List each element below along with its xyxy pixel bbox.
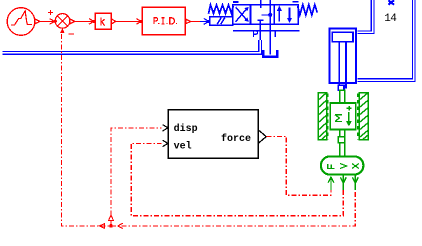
- valve body: [233, 5, 298, 25]
- valve V1 proportional solenoid: [210, 17, 233, 26]
- tank T1: [263, 50, 277, 57]
- cylinder C1: [329, 29, 356, 88]
- velocity wire: [131, 143, 343, 215]
- output port: [70, 19, 75, 24]
- block output port: [258, 130, 266, 144]
- connector square: [338, 137, 345, 143]
- mass plus sign: [347, 106, 352, 111]
- pill port X (displacement out, arrow down): [352, 175, 358, 190]
- node X marker: [389, 0, 394, 4]
- feedback + displacement wire: [62, 34, 356, 226]
- valve centre cell blocked ports: [258, 5, 273, 25]
- mass block M: [330, 103, 356, 129]
- pill port F (force in, arrow up): [328, 177, 334, 190]
- valve underline: [233, 30, 300, 32]
- minus sign: [69, 33, 74, 35]
- PID controller: [142, 7, 190, 35]
- wire summer to gain k: [75, 19, 96, 25]
- svg-text:vel: vel: [174, 140, 192, 152]
- summing junction: [48, 10, 75, 34]
- valve left top bar: [233, 1, 239, 3]
- valve left cell crossed arrows: [236, 7, 249, 22]
- pill port V (velocity out, arrow down): [340, 175, 346, 190]
- block input arrows: [163, 125, 168, 147]
- arrow up on disp branch: [109, 215, 114, 220]
- label T: [273, 31, 278, 37]
- right wall: [359, 93, 368, 140]
- disp branch wire: [111, 128, 162, 226]
- arrow left barbs: [118, 223, 123, 228]
- svg-text:disp: disp: [174, 123, 198, 135]
- arrow up into summer: [60, 28, 65, 33]
- force wire: [266, 137, 331, 196]
- wire k to PID: [116, 19, 143, 25]
- svg-text:force: force: [221, 133, 251, 145]
- function block disp/vel to force: [168, 110, 258, 158]
- pill upper stem: [340, 143, 345, 157]
- valve right cell arrows: [277, 6, 292, 24]
- sensor pill FVX: [321, 156, 364, 174]
- valve right top bar: [292, 1, 298, 3]
- junction dot: [109, 224, 113, 228]
- pipe valve top ports: [261, 0, 271, 5]
- svg-text:14: 14: [384, 13, 397, 25]
- wire PID to valve: [191, 20, 200, 22]
- plus sign: [48, 10, 53, 15]
- wall contact dashed lines: [328, 94, 358, 140]
- mass upper stem: [340, 90, 345, 103]
- pipe A to cylinder head: [358, 0, 374, 34]
- mass lower stem: [340, 129, 345, 136]
- valve left spring: [209, 5, 234, 14]
- label P: [254, 31, 258, 37]
- pipe T to tank: [269, 24, 271, 54]
- arrow left on feedback: [100, 224, 105, 229]
- wire source to summer: [40, 19, 55, 25]
- pipe B to cylinder rod side: [358, 0, 416, 81]
- signal source SRC: [7, 8, 40, 36]
- valve right spring: [298, 5, 318, 15]
- gain block k: [95, 13, 116, 29]
- left wall: [318, 93, 326, 140]
- rod end connector: [338, 85, 344, 90]
- pipe P supply line: [3, 24, 262, 54]
- mass down arrow: [348, 112, 350, 122]
